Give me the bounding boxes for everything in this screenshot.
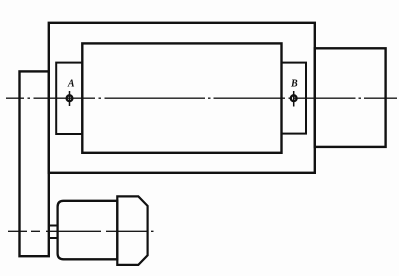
svg-text:A: A [67, 79, 75, 90]
motor end cap [117, 196, 147, 265]
bearing symbol B [291, 95, 297, 101]
motor centerline [8, 230, 156, 232]
svg-text:B: B [290, 79, 298, 90]
outer frame [49, 23, 315, 173]
motor body [58, 201, 118, 259]
bearing housing A [56, 63, 82, 134]
right extension block [315, 48, 386, 147]
main horizontal centerline [6, 97, 397, 99]
bearing symbol A [67, 95, 73, 101]
stand [20, 71, 49, 256]
bearing housing B [282, 63, 307, 134]
drum [82, 43, 281, 152]
motor shaft coupling [49, 225, 58, 227]
